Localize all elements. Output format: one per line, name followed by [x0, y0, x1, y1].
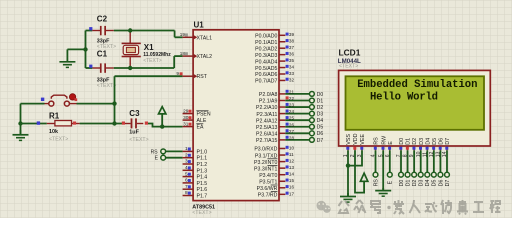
LCD pin 4 (RS) [371, 137, 380, 157]
LCD pin 11 (D4) [422, 138, 431, 157]
svg-text:EA: EA [197, 125, 204, 131]
terminal D3 (chip side) [310, 111, 315, 116]
svg-text:D3: D3 [317, 112, 324, 118]
terminal D2 (chip side) [310, 105, 315, 110]
U1 pin 1 (P1.0) [166, 146, 207, 155]
svg-text:P3.6/WR: P3.6/WR [257, 186, 278, 192]
U1 pin 36 (P0.3/AD3) [255, 52, 294, 59]
svg-text:P1.7: P1.7 [197, 194, 208, 200]
svg-text:P2.4/A12: P2.4/A12 [256, 118, 277, 124]
terminal D0 (LCD side) [399, 172, 404, 177]
svg-text:P3.7/RD: P3.7/RD [258, 193, 278, 199]
svg-text:D3: D3 [419, 180, 425, 187]
svg-text:13: 13 [289, 165, 295, 170]
svg-text:7: 7 [185, 184, 188, 189]
terminal D5 (LCD side) [431, 172, 436, 177]
U1 pin 18 (XTAL2) [180, 51, 212, 60]
LCD pin 6 (E) [385, 141, 394, 157]
svg-text:25: 25 [289, 116, 295, 121]
LCD pin 7 (D0) [396, 138, 405, 157]
svg-text:E: E [388, 180, 394, 184]
wire: D5 down [433, 150, 435, 172]
wire: D4 down [426, 150, 428, 172]
svg-text:D2: D2 [317, 105, 324, 111]
svg-text:P2.2/A10: P2.2/A10 [256, 105, 277, 111]
LCD pin 2 (VDD) [350, 133, 359, 157]
wire: XTAL2 bottom rail [114, 67, 174, 69]
U1 pin 13 (P3.3/INT1) [254, 165, 294, 172]
svg-text:Embedded Simulation: Embedded Simulation [357, 79, 477, 91]
svg-text:P1.4: P1.4 [197, 175, 208, 181]
svg-text:3: 3 [185, 159, 188, 164]
U1 pin 21 (P2.0/A8) [259, 89, 309, 98]
LCD pin 12 (D5) [429, 138, 438, 157]
svg-text:U1: U1 [194, 20, 205, 29]
svg-text:39: 39 [289, 32, 295, 37]
R1 state square (blue) [37, 121, 40, 124]
terminal RS (chip side) [161, 149, 166, 154]
svg-text:D6: D6 [439, 138, 445, 145]
terminal D2 (LCD side) [412, 172, 417, 177]
svg-text:P0.2/AD2: P0.2/AD2 [255, 46, 277, 52]
U1 pin 30 (ALE) [183, 115, 207, 124]
terminal RS (LCD side) [373, 172, 378, 177]
svg-text:RS: RS [373, 179, 379, 187]
svg-text:31: 31 [183, 121, 189, 126]
wire: D2 down [413, 150, 415, 172]
svg-text:30: 30 [183, 115, 189, 120]
svg-text:28: 28 [289, 135, 295, 140]
U1 pin 8 (P1.7) [183, 190, 208, 199]
svg-text:14: 14 [289, 172, 295, 177]
terminal D5 (chip side) [310, 124, 315, 129]
junction: crystal top on XTAL1 rail [128, 28, 132, 32]
capacitor C2 [86, 26, 114, 35]
svg-text:X1: X1 [144, 43, 154, 52]
power +5V arrow (EA) [161, 114, 163, 127]
svg-text:D0: D0 [317, 92, 324, 98]
U1 pin 10 (P3.0/RXD) [254, 145, 294, 152]
svg-text:Hello World: Hello World [370, 91, 438, 103]
svg-text:32: 32 [289, 77, 295, 82]
svg-text:P3.4/T0: P3.4/T0 [259, 173, 277, 179]
svg-text:26: 26 [289, 122, 295, 127]
svg-text:P0.7/AD7: P0.7/AD7 [255, 79, 277, 85]
power +5V arrow (LCD VDD) [363, 181, 365, 185]
svg-text:<TEXT>: <TEXT> [143, 58, 162, 64]
U1 pin 11 (P3.1/TXD) [255, 152, 294, 159]
U1 pin 38 (P0.1/AD1) [255, 39, 294, 46]
LCD pin 3 (VEE) [357, 134, 366, 158]
U1 pin 37 (P0.2/AD2) [255, 45, 294, 52]
terminal E (LCD side) [387, 172, 392, 177]
svg-text:C2: C2 [97, 14, 108, 23]
junction: RST riser at button row [112, 101, 116, 105]
LCD pin 5 (RW) [378, 135, 387, 157]
U1 pin 26 (P2.5/A13) [256, 122, 309, 131]
svg-text:36: 36 [289, 52, 295, 57]
U1 pin 39 (P0.0/AD0) [255, 32, 294, 39]
U1 pin 16 (P3.6/WR) [257, 185, 295, 192]
junction: crystal bottom on XTAL2 rail [128, 66, 132, 70]
svg-text:D0: D0 [399, 180, 405, 187]
U1 pin 23 (P2.2/A10) [256, 103, 309, 112]
svg-text:D6: D6 [317, 131, 324, 137]
svg-text:10k: 10k [49, 129, 58, 135]
capacitor C1 [86, 63, 114, 72]
svg-text:C1: C1 [97, 50, 108, 59]
svg-text:LCD1: LCD1 [339, 48, 361, 58]
LCD pin 8 (D1) [403, 138, 412, 157]
wire: RST row to U1 pin 9 [115, 75, 183, 77]
C2 state square (blue) [89, 27, 92, 30]
U1 pin 12 (P3.2/INT0) [254, 159, 294, 166]
junction on rail at ground branch [83, 47, 87, 51]
wire: left rail joining C2 and C1 left plates [85, 31, 87, 69]
svg-text:P2.5/A13: P2.5/A13 [256, 125, 277, 131]
LCD pin 10 (D3) [416, 138, 425, 157]
svg-text:RS: RS [151, 149, 159, 155]
svg-text:D4: D4 [317, 118, 324, 124]
terminal D4 (LCD side) [425, 172, 430, 177]
U1 pin 9 (RST) [176, 71, 207, 80]
R1 state square (red) [73, 122, 76, 125]
svg-text:D5: D5 [317, 125, 324, 131]
svg-text:D1: D1 [317, 98, 324, 104]
push button [45, 94, 77, 106]
svg-text:5: 5 [185, 171, 188, 176]
U1 pin 5 (P1.4) [183, 171, 208, 180]
svg-text:D5: D5 [432, 180, 438, 187]
svg-text:<TEXT>: <TEXT> [192, 210, 211, 216]
svg-text:P1.5: P1.5 [197, 181, 208, 187]
svg-text:P1.6: P1.6 [197, 187, 208, 193]
U1 pin 25 (P2.4/A12) [256, 116, 309, 125]
svg-text:22: 22 [289, 96, 295, 101]
microcontroller U1 body [193, 30, 279, 201]
svg-text:P0.4/AD4: P0.4/AD4 [255, 59, 277, 65]
U1 pin 35 (P0.4/AD4) [255, 58, 294, 65]
wire: D1 down [407, 150, 409, 172]
svg-text:27: 27 [289, 129, 295, 134]
U1 pin 15 (P3.5/T1) [259, 178, 294, 185]
svg-text:P0.0/AD0: P0.0/AD0 [255, 34, 277, 40]
svg-text:<TEXT>: <TEXT> [129, 137, 148, 143]
svg-text:ALE: ALE [197, 118, 207, 124]
wire: XTAL1 top rail [114, 30, 175, 32]
svg-text:P1.1: P1.1 [197, 156, 208, 162]
junction: VSS/VEE tie [346, 163, 350, 167]
junction: RST riser at R1/C3 row [112, 121, 116, 125]
svg-text:18: 18 [180, 51, 186, 56]
wire: RS down [375, 150, 377, 172]
svg-text:P3.5/T1: P3.5/T1 [259, 179, 277, 185]
svg-text:29: 29 [183, 108, 189, 113]
ground (LCD VSS) [347, 193, 349, 197]
LCD pin 14 (D7) [442, 138, 451, 157]
U1 pin 2 (P1.1) [166, 152, 207, 161]
wire: C3 to EA row jog [148, 124, 183, 127]
crystal X1 [122, 31, 141, 69]
svg-text:4: 4 [185, 165, 188, 170]
C1 state square (blue) [89, 65, 92, 68]
svg-text:D6: D6 [438, 180, 444, 187]
junction: power arrow on EA wire [160, 124, 164, 128]
wire: button row left [21, 103, 45, 105]
wire: E down [389, 150, 391, 172]
terminal D1 (LCD side) [405, 172, 410, 177]
wire: VSS down to ground [347, 150, 349, 196]
U1 pin 6 (P1.5) [183, 178, 208, 187]
wire: D7 down [446, 150, 448, 172]
svg-text:33: 33 [289, 71, 295, 76]
wire: VEE to VSS [348, 150, 362, 165]
svg-text:P0.1/AD1: P0.1/AD1 [255, 40, 277, 46]
svg-text:P0.5/AD5: P0.5/AD5 [255, 66, 277, 72]
wire: RW down to ground [382, 150, 384, 190]
U1 pin 4 (P1.3) [183, 165, 208, 174]
svg-text:<TEXT>: <TEXT> [97, 83, 116, 89]
svg-text:D0: D0 [399, 138, 405, 145]
LCD LM044L body [339, 70, 491, 146]
LCD pin 13 (D6) [436, 138, 445, 157]
svg-text:D7: D7 [317, 138, 324, 144]
svg-text:RS: RS [374, 137, 380, 145]
U1 pin 33 (P0.6/AD6) [255, 71, 294, 78]
wire: R1 to C3 [80, 123, 125, 125]
svg-text:E: E [388, 141, 394, 145]
wire: XTAL2 rise to pin 18 [173, 56, 175, 68]
svg-text:D4: D4 [425, 180, 431, 187]
svg-text:VSS: VSS [346, 134, 352, 145]
watermark logo [317, 201, 331, 213]
ground (crystal caps) [66, 49, 68, 61]
svg-text:P2.6/A14: P2.6/A14 [256, 132, 277, 138]
junction on rail at R1 row [18, 121, 22, 125]
svg-text:RW: RW [381, 135, 387, 145]
svg-text:P3.2/INT0: P3.2/INT0 [254, 160, 277, 166]
svg-text:1uF: 1uF [129, 129, 139, 135]
U1 pin 19 (XTAL1) [180, 32, 212, 41]
button state square (blue) [41, 98, 44, 101]
U1 pin 29 (PSEN) [183, 108, 211, 117]
terminal D3 (LCD side) [418, 172, 423, 177]
svg-text:17: 17 [289, 191, 295, 196]
wire: left ground rail (reset) [20, 104, 22, 135]
svg-text:P3.0/RXD: P3.0/RXD [254, 147, 277, 153]
U1 pin 17 (P3.7/RD) [258, 191, 295, 198]
svg-text:23: 23 [289, 103, 295, 108]
svg-text:P1.0: P1.0 [197, 149, 208, 155]
svg-text:D3: D3 [419, 138, 425, 145]
svg-text:D7: D7 [445, 138, 451, 145]
U1 pin 27 (P2.6/A14) [256, 129, 309, 138]
svg-text:VDD: VDD [353, 133, 359, 144]
svg-text:11: 11 [289, 152, 294, 157]
svg-text:D7: D7 [445, 180, 451, 187]
svg-text:2: 2 [185, 152, 188, 157]
U1 pin 7 (P1.6) [183, 184, 208, 193]
svg-text:37: 37 [289, 45, 295, 50]
svg-text:P2.3/A11: P2.3/A11 [256, 112, 277, 118]
wire: D3 down [420, 150, 422, 172]
svg-text:RST: RST [197, 74, 208, 80]
terminal D7 (LCD side) [445, 172, 450, 177]
svg-text:PSEN: PSEN [197, 112, 211, 118]
terminal D1 (chip side) [310, 98, 315, 103]
svg-text:12: 12 [289, 159, 295, 164]
svg-text:38: 38 [289, 39, 295, 44]
wire: XTAL1 drop to pin 19 [174, 31, 176, 38]
svg-text:P1.3: P1.3 [197, 168, 208, 174]
svg-text:8: 8 [185, 190, 188, 195]
U1 pin 14 (P3.4/T0) [259, 172, 294, 179]
LCD screen [346, 76, 485, 130]
wire: button row to RST riser [77, 103, 115, 105]
svg-text:P2.1/A9: P2.1/A9 [259, 99, 278, 105]
svg-text:P2.0/A8: P2.0/A8 [259, 92, 278, 98]
wire: D0 down [400, 150, 402, 172]
svg-text:R1: R1 [49, 111, 60, 120]
wire: RST riser [114, 76, 116, 123]
resistor R1 [21, 121, 80, 126]
svg-text:XTAL2: XTAL2 [197, 54, 213, 60]
watermark text 公众号·嵌入式仿真工程 [339, 200, 501, 215]
U1 pin 34 (P0.5/AD5) [255, 64, 294, 71]
wire: VDD loop to +5V arrow [355, 150, 364, 192]
ground (reset network) [20, 130, 22, 135]
svg-text:10: 10 [289, 145, 295, 150]
svg-text:21: 21 [289, 89, 295, 94]
terminal E (chip side) [161, 155, 166, 160]
U1 pin 28 (P2.7/A15) [256, 135, 309, 144]
U1 pin 32 (P0.7/AD7) [255, 77, 294, 84]
svg-text:P2.7/A15: P2.7/A15 [256, 138, 277, 144]
terminal D7 (chip side) [310, 137, 315, 142]
svg-text:34: 34 [289, 64, 295, 69]
U1 pin 31 (EA) [183, 121, 204, 130]
svg-text:P0.3/AD3: P0.3/AD3 [255, 53, 277, 59]
svg-text:35: 35 [289, 58, 295, 63]
svg-text:<TEXT>: <TEXT> [339, 64, 358, 70]
terminal D6 (chip side) [310, 131, 315, 136]
svg-text:16: 16 [289, 185, 295, 190]
svg-text:6: 6 [185, 178, 188, 183]
svg-text:<TEXT>: <TEXT> [49, 137, 68, 143]
LCD pin 9 (D2) [409, 138, 418, 157]
svg-text:1: 1 [185, 146, 188, 151]
svg-text:D5: D5 [432, 138, 438, 145]
svg-text:D1: D1 [405, 180, 411, 187]
svg-text:P3.1/TXD: P3.1/TXD [255, 153, 278, 159]
terminal D0 (chip side) [310, 92, 315, 97]
svg-text:VEE: VEE [360, 134, 366, 145]
terminal D6 (LCD side) [438, 172, 443, 177]
svg-text:D4: D4 [425, 138, 431, 145]
terminal D4 (chip side) [310, 118, 315, 123]
svg-text:19: 19 [180, 32, 186, 37]
svg-text:9: 9 [176, 71, 179, 76]
C3 state square left (red) [122, 122, 125, 125]
button state square (red) [74, 98, 77, 101]
capacitor C3 [125, 118, 144, 128]
LCD pin 1 (VSS) [343, 134, 352, 158]
svg-text:D2: D2 [412, 138, 418, 145]
svg-text:24: 24 [289, 109, 295, 114]
wire: ground branch from rail [67, 48, 85, 50]
C3 state square right (red) [145, 122, 148, 125]
svg-text:15: 15 [289, 178, 295, 183]
svg-text:C3: C3 [129, 109, 140, 118]
svg-text:D1: D1 [406, 138, 412, 145]
svg-text:P0.6/AD6: P0.6/AD6 [255, 72, 277, 78]
U1 pin 22 (P2.1/A9) [259, 96, 309, 105]
svg-text:P1.2: P1.2 [197, 162, 208, 168]
U1 pin 3 (P1.2) [183, 159, 208, 168]
ground (LCD RW) [382, 188, 384, 191]
wire: D6 down [439, 150, 441, 172]
svg-text:XTAL1: XTAL1 [197, 35, 213, 41]
U1 pin 24 (P2.3/A11) [256, 109, 309, 118]
svg-text:P3.3/INT1: P3.3/INT1 [254, 166, 277, 172]
svg-text:D2: D2 [412, 180, 418, 187]
